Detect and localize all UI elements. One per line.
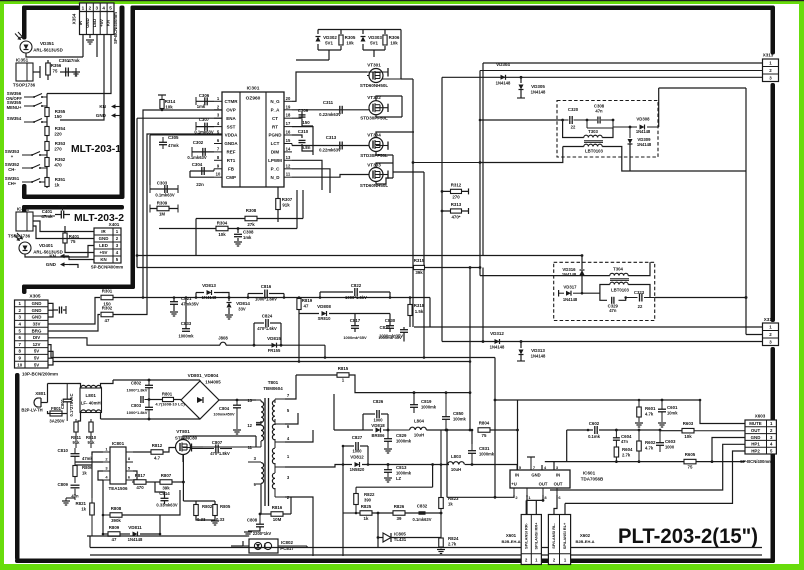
svg-text:OUT: OUT [539, 482, 548, 487]
resistor R306 10k [384, 30, 386, 35]
svg-text:12V: 12V [33, 342, 41, 347]
svg-text:VD305: VD305 [531, 84, 545, 89]
svg-text:75: 75 [688, 465, 693, 470]
svg-text:1000mk: 1000mk [421, 405, 437, 410]
switch ladder bus [46, 94, 48, 189]
svg-text:47: 47 [112, 537, 117, 542]
jumper J808 [220, 342, 226, 345]
connector X601 speaker [521, 515, 541, 565]
svg-text:CH+: CH+ [8, 181, 17, 186]
svg-text:5V1: 5V1 [325, 41, 333, 46]
X305 gnd pins join [48, 303, 53, 317]
svg-text:X313: X313 [763, 53, 774, 58]
svg-text:CTMR: CTMR [225, 99, 239, 104]
svg-text:R315: R315 [414, 258, 425, 263]
svg-text:2.7k: 2.7k [448, 542, 457, 547]
wire 5V rail [53, 361, 470, 363]
svg-text:1N4148: 1N4148 [128, 537, 143, 542]
capacitor C813 1000mk LZ [387, 463, 390, 466]
svg-text:R602: R602 [645, 440, 656, 445]
svg-text:18: 18 [286, 113, 291, 118]
resistor R816 10M [271, 512, 283, 517]
svg-text:75: 75 [482, 433, 487, 438]
svg-text:X312: X312 [764, 317, 775, 322]
svg-text:VD312: VD312 [490, 331, 504, 336]
svg-text:C807: C807 [212, 440, 223, 445]
wire net to T304 [479, 71, 481, 121]
svg-text:1N5820: 1N5820 [350, 467, 365, 472]
frame MLT-203-1 top edge [22, 6, 80, 11]
svg-text:1N4148: 1N4148 [531, 90, 546, 95]
IC601 TDA7056B body [510, 470, 570, 488]
svg-text:ARL-5613USD: ARL-5613USD [33, 48, 63, 53]
svg-text:R307: R307 [282, 197, 293, 202]
T801 secondary windings [272, 401, 275, 422]
resistor R815 1 [337, 373, 349, 378]
svg-text:T801: T801 [268, 380, 279, 385]
svg-text:1000mk*35V: 1000mk*35V [378, 335, 402, 340]
long vertical VT302 net [401, 96, 403, 117]
svg-text:VD313: VD313 [531, 348, 545, 353]
svg-text:GND: GND [46, 262, 57, 267]
svg-text:HP2: HP2 [751, 448, 760, 453]
svg-text:C816: C816 [261, 284, 272, 289]
zener VD814 33V [228, 296, 231, 299]
svg-text:CH-: CH- [8, 167, 16, 172]
svg-text:39: 39 [397, 516, 402, 521]
svg-text:R826: R826 [394, 504, 405, 509]
svg-text:470: 470 [54, 163, 62, 168]
svg-text:IC351: IC351 [16, 58, 29, 63]
svg-text:12: 12 [286, 163, 291, 168]
svg-text:VD811: VD811 [128, 525, 142, 530]
wire X312 pin3 with VD312 [442, 341, 763, 343]
svg-text:5V: 5V [34, 356, 39, 361]
svg-text:X601: X601 [506, 533, 517, 538]
svg-text:10uH: 10uH [451, 467, 461, 472]
T801 primary winding low [261, 463, 264, 484]
svg-text:R807: R807 [161, 473, 172, 478]
svg-text:1N4005: 1N4005 [205, 380, 221, 385]
audio +U rail [518, 399, 700, 401]
svg-text:1N4148: 1N4148 [490, 345, 505, 350]
svg-text:75: 75 [53, 69, 58, 74]
main frame right edge lower [771, 347, 776, 563]
svg-text:KN: KN [99, 104, 106, 109]
svg-text:X305: X305 [29, 294, 41, 300]
svg-text:ARL-5613USD: ARL-5613USD [33, 250, 63, 255]
svg-text:REF: REF [227, 150, 236, 155]
svg-text:OVP: OVP [226, 108, 236, 113]
T801 pin wires right [285, 375, 296, 399]
svg-text:C850: C850 [453, 411, 464, 416]
svg-text:RT: RT [272, 124, 278, 129]
capacitor C601 10mk [658, 408, 666, 410]
svg-text:TBM0604: TBM0604 [263, 386, 283, 391]
resistor R307 91k [277, 187, 279, 222]
svg-text:1M: 1M [159, 212, 165, 217]
svg-text:R806: R806 [82, 465, 93, 470]
svg-text:1N4148: 1N4148 [496, 81, 511, 86]
svg-text:0.33mk63V: 0.33mk63V [156, 503, 177, 508]
svg-text:R306: R306 [389, 35, 400, 40]
svg-text:R351: R351 [55, 177, 66, 182]
resistor R826 39 [393, 511, 405, 516]
svg-text:IN: IN [556, 473, 560, 478]
main frame top edge [131, 6, 775, 11]
svg-text:PLT-203-2(15"): PLT-203-2(15") [618, 525, 758, 548]
resistor R817 470 [134, 480, 146, 485]
svg-text:1000mk: 1000mk [479, 452, 495, 457]
svg-text:1N4148: 1N4148 [562, 272, 577, 277]
svg-text:VD303: VD303 [368, 35, 382, 40]
svg-text:LED: LED [99, 243, 108, 248]
svg-text:C826: C826 [373, 399, 384, 404]
svg-text:R801: R801 [162, 392, 173, 397]
wire VT303 HV net [392, 155, 394, 178]
svg-text:C803: C803 [131, 403, 142, 408]
capacitor C809 47n [71, 484, 80, 486]
resistor R305 10k [340, 30, 342, 35]
wire into T303 [480, 119, 563, 121]
svg-text:C822: C822 [351, 283, 362, 288]
svg-text:2: 2 [89, 5, 92, 10]
wire pin5 KN [47, 35, 111, 94]
svg-text:R308: R308 [246, 208, 257, 213]
svg-text:5V: 5V [34, 362, 39, 367]
svg-text:4.7k: 4.7k [645, 446, 654, 451]
svg-text:270: 270 [54, 147, 62, 152]
svg-text:R304: R304 [217, 221, 228, 226]
svg-text:1k: 1k [448, 502, 453, 507]
IC601 bottom pins [513, 488, 515, 495]
svg-text:C302: C302 [193, 140, 204, 145]
svg-text:C827: C827 [352, 435, 363, 440]
svg-text:VD308: VD308 [636, 117, 650, 122]
IC301 right pins [284, 100, 292, 102]
zener VD302 5V1 [317, 30, 319, 35]
wires VT801 source sense [182, 455, 184, 501]
wires IC351 [33, 71, 40, 73]
svg-text:SR810: SR810 [318, 316, 331, 321]
svg-text:DIM: DIM [271, 150, 280, 155]
svg-text:470*1.8kV: 470*1.8kV [210, 451, 230, 456]
svg-text:+5V: +5V [100, 250, 108, 255]
wire AC top to bridge [113, 379, 200, 381]
capacitor C831 1000mk [468, 450, 476, 452]
svg-text:SP/LANSI RL+: SP/LANSI RL+ [562, 522, 567, 549]
svg-text:J808: J808 [218, 336, 228, 341]
svg-text:R314: R314 [165, 99, 176, 104]
resistor R812 4.7 [151, 450, 163, 455]
svg-text:PGND: PGND [268, 133, 282, 138]
svg-text:MUTE: MUTE [749, 421, 762, 426]
svg-text:R354: R354 [55, 126, 66, 131]
wire 33V net [143, 297, 430, 299]
svg-text:SP-BCN/400mm: SP-BCN/400mm [113, 12, 118, 44]
wire X313 pin1 vertical [482, 63, 484, 256]
svg-text:X354: X354 [72, 13, 77, 24]
svg-text:1N4148: 1N4148 [636, 129, 651, 134]
svg-text:390k: 390k [111, 518, 121, 523]
svg-text:C306: C306 [199, 93, 210, 98]
svg-text:SP-BCN/400mm: SP-BCN/400mm [91, 265, 124, 270]
resistor R806 1k [73, 466, 77, 477]
capacitor C329 47n [600, 293, 607, 300]
svg-text:VD302: VD302 [323, 35, 337, 40]
T304 dashed box [554, 262, 655, 320]
svg-text:11: 11 [286, 172, 291, 177]
wire X313 pin1 [483, 62, 763, 64]
svg-text:22n: 22n [196, 182, 204, 187]
svg-text:L804: L804 [414, 419, 425, 424]
svg-text:C804: C804 [219, 406, 230, 411]
filter L801 LF-40mH [80, 388, 102, 413]
svg-text:LBT0103: LBT0103 [585, 149, 604, 154]
svg-text:X401: X401 [109, 222, 120, 227]
diode VD305 1N4148 [520, 76, 523, 79]
wire pin3 led [96, 35, 98, 58]
svg-text:SP-BCN/400mm: SP-BCN/400mm [740, 459, 772, 464]
svg-text:R812: R812 [152, 443, 163, 448]
svg-text:10mk: 10mk [667, 411, 678, 416]
T801 primary winding top [261, 402, 264, 423]
svg-text:47mk35V: 47mk35V [181, 302, 199, 307]
T801 primary winding mid [261, 425, 264, 441]
svg-text:1k: 1k [81, 507, 86, 512]
svg-text:HP1: HP1 [751, 442, 760, 447]
wire DIV net [48, 338, 210, 345]
wires opto [306, 547, 308, 549]
svg-text:1000mk*35V: 1000mk*35V [343, 335, 367, 340]
svg-text:5V: 5V [34, 349, 39, 354]
capacitor C820 1000mk*35V [400, 329, 408, 331]
svg-text:R816: R816 [272, 505, 283, 510]
svg-text:1000: 1000 [373, 418, 383, 423]
resistor R824 2.7k [439, 538, 444, 547]
svg-text:R353: R353 [55, 141, 66, 146]
X603 wires [700, 400, 745, 424]
frame MLT-203-2 top edge [22, 205, 124, 210]
long nets left [195, 219, 197, 256]
svg-text:VD814: VD814 [236, 301, 250, 306]
svg-text:VD815: VD815 [267, 336, 281, 341]
svg-text:10uH: 10uH [414, 433, 424, 438]
svg-text:VD813: VD813 [202, 283, 216, 288]
svg-text:VD801_VD804: VD801_VD804 [188, 373, 219, 378]
IC801 wires [92, 452, 103, 455]
IC301 left pins [214, 100, 222, 102]
svg-text:C320: C320 [568, 107, 579, 112]
diode VD808 SR810 [322, 311, 327, 316]
svg-text:10k: 10k [218, 232, 226, 237]
wire IC801 pin5 [133, 471, 137, 480]
svg-text:SW354: SW354 [7, 116, 22, 121]
T303 winding wires [563, 120, 584, 138]
capacitor C804 100mk450V [233, 404, 241, 406]
svg-text:91k: 91k [282, 203, 290, 208]
svg-text:39k: 39k [415, 270, 423, 275]
capacitor C801 0.1*275VAC [63, 398, 72, 400]
svg-text:C831: C831 [479, 446, 490, 451]
svg-text:OUT: OUT [751, 428, 761, 433]
svg-text:IC401: IC401 [17, 207, 30, 212]
svg-text:T303: T303 [588, 129, 598, 134]
wire T304 out to X312 [655, 297, 746, 299]
svg-text:GND: GND [751, 435, 761, 440]
svg-text:IN: IN [515, 473, 519, 478]
svg-text:VDDA: VDDA [225, 133, 239, 138]
resistors R802 R805 0.33 [194, 505, 199, 516]
green page border [0, 0, 804, 4]
svg-text:13: 13 [247, 398, 252, 403]
svg-text:C304: C304 [192, 162, 203, 167]
svg-text:20: 20 [286, 96, 291, 101]
resistor R352 470 [45, 158, 49, 167]
svg-text:2.7k: 2.7k [622, 453, 631, 458]
svg-text:10P-BCN/200mm: 10P-BCN/200mm [22, 372, 58, 377]
IC801 TEA1506 body [110, 447, 126, 484]
svg-text:MENU+: MENU+ [7, 105, 22, 110]
resistor R351 1k [45, 178, 49, 187]
svg-text:VT301: VT301 [367, 63, 381, 68]
svg-text:270: 270 [452, 195, 460, 200]
capacitor C308 1mk [237, 227, 240, 230]
svg-text:VT304: VT304 [367, 133, 381, 138]
svg-text:R356: R356 [51, 63, 62, 68]
svg-text:P_A: P_A [271, 108, 281, 113]
svg-text:VD808: VD808 [317, 304, 331, 309]
svg-text:C801: C801 [60, 398, 65, 409]
svg-text:6.8n: 6.8n [302, 145, 311, 150]
svg-text:0.1mk: 0.1mk [588, 434, 601, 439]
svg-text:R309: R309 [157, 201, 168, 206]
resistor R302 47 [48, 315, 100, 332]
svg-text:220: 220 [54, 132, 62, 137]
resistor R356 75 [47, 60, 49, 80]
svg-text:R817: R817 [135, 473, 146, 478]
svg-text:3A250V: 3A250V [49, 419, 64, 424]
svg-text:+5V: +5V [99, 19, 104, 27]
svg-text:14: 14 [286, 146, 291, 151]
svg-text:R352: R352 [55, 157, 66, 162]
svg-text:GND: GND [32, 315, 42, 320]
resistor R603 10k [682, 428, 694, 433]
svg-text:390: 390 [364, 498, 372, 503]
svg-text:X801: X801 [35, 391, 46, 396]
svg-text:2200*1kV: 2200*1kV [253, 531, 272, 536]
resistor R401 75 [64, 226, 66, 250]
svg-text:12: 12 [247, 423, 252, 428]
svg-text:R805: R805 [220, 504, 231, 509]
wires X401 to parts [33, 221, 94, 232]
resistor R315 39k [414, 265, 425, 269]
resistor R312 270 [442, 190, 469, 192]
svg-text:C824: C824 [262, 314, 273, 319]
svg-text:TDA7056B: TDA7056B [581, 477, 604, 482]
svg-text:5: 5 [109, 5, 112, 10]
svg-text:470*: 470* [451, 215, 460, 220]
resistor R819 47 [297, 299, 301, 310]
svg-text:RT1: RT1 [227, 158, 236, 163]
main frame bottom edge [15, 559, 775, 564]
svg-text:R318: R318 [414, 303, 425, 308]
svg-text:10k: 10k [390, 41, 398, 46]
svg-text:1mk: 1mk [197, 104, 206, 109]
main frame right edge upper [771, 6, 776, 55]
resistor R355 150 [45, 108, 49, 117]
svg-text:R804: R804 [479, 421, 490, 426]
svg-text:0.1mk63V: 0.1mk63V [187, 155, 207, 160]
resistor R807 39k [160, 480, 172, 485]
svg-text:1k: 1k [82, 471, 87, 476]
optocoupler IC802 PC817 [249, 539, 278, 553]
svg-text:C308: C308 [243, 230, 254, 235]
svg-text:470: 470 [136, 485, 144, 490]
diode VD313 1N4148 [520, 340, 523, 343]
svg-text:0.1mk63V: 0.1mk63V [194, 130, 214, 135]
svg-text:C810: C810 [58, 448, 69, 453]
frame MLT-203-1 right edge [120, 6, 125, 200]
svg-text:R312: R312 [451, 183, 462, 188]
svg-text:C305: C305 [168, 135, 179, 140]
main frame left edge [131, 6, 136, 290]
frame MLT-203-1 bottom-left stub [22, 184, 27, 199]
T304 winding wires [480, 275, 610, 277]
resistor R602 4.7k [637, 441, 642, 451]
svg-text:VD351: VD351 [40, 41, 54, 46]
svg-text:10k: 10k [165, 105, 173, 110]
svg-text:X603: X603 [755, 414, 766, 419]
resistor R821 1k [90, 503, 95, 515]
svg-text:ENA: ENA [226, 116, 236, 121]
svg-text:GND: GND [531, 473, 540, 478]
svg-text:GNDA: GNDA [224, 141, 238, 146]
svg-text:T304: T304 [613, 267, 623, 272]
svg-text:C311: C311 [323, 100, 334, 105]
svg-text:N_G: N_G [270, 99, 280, 104]
IC351 TSOP1736 [16, 63, 33, 81]
svg-text:R819: R819 [302, 298, 313, 303]
X305 5V pins join [48, 351, 53, 365]
svg-text:C313: C313 [326, 135, 337, 140]
svg-text:BRG: BRG [32, 328, 42, 333]
svg-text:VT801: VT801 [176, 429, 190, 434]
svg-text:TEA1506: TEA1506 [108, 486, 128, 491]
svg-text:1000mk: 1000mk [178, 334, 194, 339]
svg-text:1k: 1k [364, 516, 369, 521]
svg-text:GND: GND [96, 113, 107, 118]
shunt reg IC805 TL431 [383, 533, 391, 542]
T801 pin11 to VT801 drain [188, 446, 190, 448]
svg-text:VD818: VD818 [371, 423, 385, 428]
svg-text:1000: 1000 [352, 449, 362, 454]
svg-text:R802: R802 [202, 504, 213, 509]
svg-text:470*1.6kV: 470*1.6kV [257, 326, 277, 331]
svg-text:LF- 40mH: LF- 40mH [81, 401, 101, 406]
svg-text:C310: C310 [298, 129, 309, 134]
svg-text:GND: GND [32, 308, 42, 313]
feedback net wires [432, 465, 434, 488]
capacitor C810 47mk [71, 453, 80, 455]
svg-text:CT: CT [272, 116, 278, 121]
svg-text:R305: R305 [345, 35, 356, 40]
wire 12V rail [48, 345, 495, 358]
svg-text:IC805: IC805 [394, 532, 406, 537]
resistor R823 1k [439, 498, 444, 509]
wire pin4 [60, 35, 104, 121]
svg-text:FR155: FR155 [268, 348, 281, 353]
